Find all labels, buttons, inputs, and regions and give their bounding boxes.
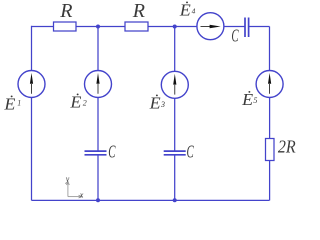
source E5 arrow (268, 73, 271, 94)
source E5 circle (256, 71, 283, 98)
svg-text:Ė: Ė (241, 90, 254, 109)
wire E5 circle to resistor 2R (269, 97, 271, 138)
svg-text:Ė: Ė (179, 1, 192, 20)
svg-text:5: 5 (253, 96, 257, 105)
svg-text:2: 2 (83, 99, 87, 108)
source E2 circle (85, 71, 112, 98)
wire left branch vertical upper (31, 26, 33, 71)
wire capacitor to top-right corner (249, 26, 270, 28)
wire capacitor to bottom (E2 branch) (97, 155, 99, 200)
svg-text:y: y (65, 175, 70, 184)
svg-text:1: 1 (17, 99, 21, 108)
svg-text:C: C (187, 142, 195, 162)
label E4 (179, 1, 196, 20)
label E1 (3, 95, 21, 114)
wire R1 to R2 (76, 26, 125, 28)
wire E2 branch vertical upper (97, 27, 99, 71)
wire E3 branch vertical upper (174, 27, 176, 72)
wire E2 circle to capacitor (97, 97, 99, 150)
svg-text:3: 3 (160, 100, 165, 109)
resistor R1 (54, 22, 77, 31)
source E1 arrow (30, 73, 33, 94)
label E2 (69, 93, 86, 112)
svg-text:2R: 2R (278, 137, 296, 157)
label E5 (241, 90, 257, 109)
wire left branch vertical lower (31, 97, 33, 200)
source E4 arrow (201, 25, 221, 29)
junction node bottom of E2 branch (96, 198, 100, 202)
svg-text:R: R (132, 0, 145, 22)
wire R2 to E4 (148, 26, 197, 28)
svg-text:R: R (59, 0, 72, 22)
junction node bottom of E3 branch (173, 198, 177, 202)
wire top-left horizontal to R1 (32, 26, 54, 28)
resistor R2 (125, 22, 148, 31)
source E4 circle (197, 13, 224, 40)
wire capacitor to bottom (E3 branch) (174, 155, 176, 200)
svg-text:4: 4 (192, 6, 196, 15)
source E2 arrow (96, 73, 99, 94)
capacitor C (E2 branch) plates (85, 151, 107, 155)
label E3 (149, 94, 165, 113)
source E3 arrow (173, 74, 176, 95)
junction node top of E3 branch (173, 25, 177, 29)
wire E4 to capacitor C-top (224, 26, 245, 28)
wire bottom horizontal (32, 199, 270, 201)
resistor 2R (266, 139, 275, 161)
wire 2R to bottom-right corner (269, 161, 271, 201)
svg-text:Ė: Ė (149, 94, 162, 113)
wire E3 circle to capacitor (174, 98, 176, 150)
svg-text:Ė: Ė (3, 95, 16, 114)
capacitor C (top) plates (245, 18, 249, 38)
source E3 circle (161, 71, 188, 98)
svg-text:C: C (108, 142, 116, 162)
svg-text:x: x (79, 191, 84, 200)
capacitor C (E3 branch) plates (164, 151, 186, 155)
source E1 circle (18, 71, 45, 98)
svg-text:Ė: Ė (69, 93, 82, 112)
svg-text:C: C (231, 25, 239, 45)
wire right branch vertical upper (269, 27, 271, 71)
axes marker (x-y coordinate cross) (67, 182, 83, 199)
junction node top of E2 branch (96, 25, 100, 29)
